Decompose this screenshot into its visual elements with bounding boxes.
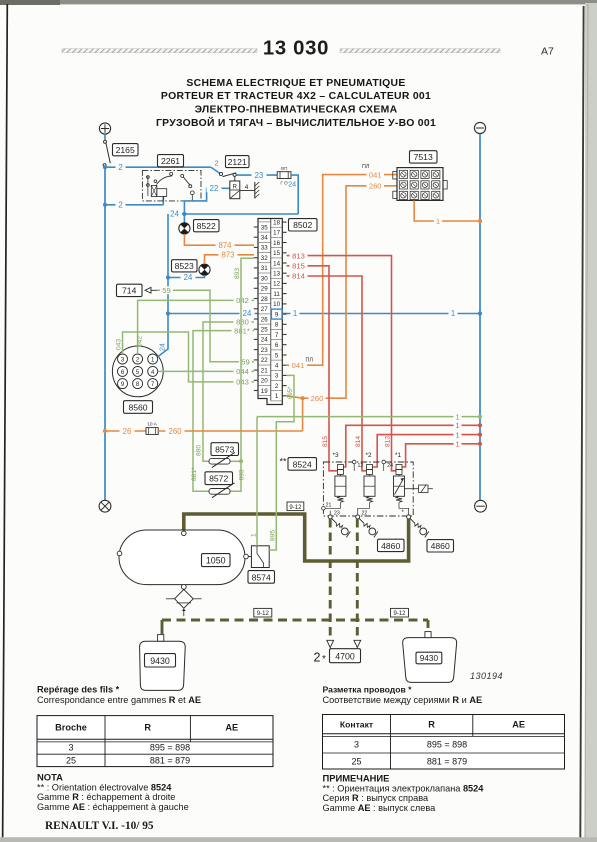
svg-text:24: 24 — [288, 180, 296, 189]
wire 24 bus horizontal — [167, 210, 298, 219]
temperature sensor 8573 — [209, 452, 235, 467]
solenoid valve block 8524 enclosure — [323, 462, 413, 516]
wire 043 — [115, 332, 254, 387]
svg-text:9: 9 — [275, 311, 279, 318]
svg-text:NOTA: NOTA — [37, 772, 63, 783]
svg-text:4860: 4860 — [381, 541, 400, 551]
page right scanned edge band — [580, 3, 597, 842]
svg-text:AE: AE — [225, 722, 238, 732]
solenoid valve 2 — [364, 465, 375, 503]
svg-text:22: 22 — [261, 357, 268, 364]
svg-text:SCHEMA ELECTRIQUE ET PNEUMATIQ: SCHEMA ELECTRIQUE ET PNEUMATIQUE — [186, 78, 405, 89]
title 13 030 — [263, 38, 329, 60]
svg-text:1: 1 — [455, 430, 459, 439]
svg-text:Gamme AE : выпуск слева: Gamme AE : выпуск слева — [323, 803, 437, 813]
svg-text:260: 260 — [311, 394, 324, 403]
wire 2 lower horizontal — [103, 197, 163, 210]
svg-text:** : Orientation électrovalve: ** : Orientation électrovalve 8524 — [37, 782, 172, 792]
svg-text:29: 29 — [261, 286, 268, 293]
svg-text:880: 880 — [196, 445, 203, 456]
svg-text:26: 26 — [261, 316, 268, 323]
connector 8560 body — [112, 346, 163, 397]
svg-text:19: 19 — [261, 388, 268, 395]
valve position labels *3 *2 *1 — [332, 452, 401, 459]
svg-text:24: 24 — [387, 463, 393, 469]
svg-text:31: 31 — [261, 265, 268, 272]
svg-text:9-12: 9-12 — [393, 611, 406, 617]
wire 23 — [236, 171, 277, 180]
svg-text:7: 7 — [275, 332, 279, 339]
svg-text:34: 34 — [261, 235, 268, 242]
wire 2 upper horizontal — [103, 159, 219, 172]
svg-text:10 A: 10 A — [147, 422, 157, 428]
wire 260 from pin 1 — [287, 394, 326, 403]
indicator lamp 8523 — [199, 264, 210, 275]
minus terminal (bottom right) — [475, 500, 487, 512]
page top scanned edge bar — [0, 0, 597, 5]
svg-text:** : Ориентация электроклапана: ** : Ориентация электроклапана 8524 — [323, 783, 485, 793]
svg-text:041: 041 — [369, 171, 382, 180]
block internal drain lines — [330, 503, 408, 515]
svg-text:2261: 2261 — [161, 156, 180, 166]
svg-text:16: 16 — [273, 240, 280, 247]
header line 4 RU — [156, 116, 436, 129]
svg-text:041: 041 — [292, 361, 305, 370]
svg-text:2165: 2165 — [116, 145, 135, 155]
pneumatic pipe to 9430 tanks (dashed horizontal) — [162, 620, 428, 634]
svg-text:8502: 8502 — [293, 220, 312, 230]
header line 3 RU — [195, 105, 398, 116]
wire 814 — [287, 272, 367, 471]
svg-text:5: 5 — [275, 352, 279, 359]
temperature sensor 8572 — [209, 483, 235, 498]
left note block FR — [37, 685, 201, 706]
svg-text:25: 25 — [66, 755, 76, 765]
svg-text:11: 11 — [273, 291, 280, 298]
label box 8572 — [205, 472, 233, 485]
svg-text:22: 22 — [362, 511, 368, 517]
svg-text:*3: *3 — [332, 452, 338, 459]
label box 2261 — [158, 155, 184, 167]
wire 1 from 8574 — [250, 417, 257, 546]
svg-text:10: 10 — [273, 301, 280, 308]
svg-text:3: 3 — [68, 743, 73, 753]
valve 3 return wire 1 — [343, 421, 482, 467]
svg-text:042: 042 — [236, 296, 249, 305]
svg-text:24: 24 — [170, 210, 179, 219]
label box 8524 — [280, 457, 317, 471]
svg-text:813: 813 — [292, 251, 305, 260]
header line 1 FR — [186, 78, 405, 89]
chassis plus terminal (bottom left) — [99, 500, 111, 512]
connector arrow 714 — [145, 287, 157, 293]
svg-text:Gamme R : échappement à droite: Gamme R : échappement à droite — [37, 792, 175, 802]
page bottom scanned edge band — [0, 837, 597, 842]
test coupling — [332, 519, 351, 538]
connector 7513 body — [393, 168, 447, 201]
svg-text:Correspondance entre gammes R: Correspondance entre gammes R et AE — [37, 695, 201, 705]
svg-text:Контакт: Контакт — [340, 720, 373, 730]
svg-text:7513: 7513 — [414, 152, 433, 162]
wire 044 — [158, 367, 254, 376]
svg-text:2: 2 — [275, 383, 279, 390]
svg-text:A7: A7 — [541, 46, 554, 58]
minus bus terminal (top right) — [474, 122, 485, 133]
svg-text:Г Θ: Г Θ — [280, 181, 288, 186]
right table — [323, 715, 565, 770]
resistive element with label 4 — [240, 182, 259, 199]
svg-text:1: 1 — [275, 393, 279, 400]
svg-text:1: 1 — [455, 412, 459, 421]
svg-text:895*: 895* — [288, 386, 294, 399]
right note block RU — [323, 685, 483, 706]
wire 260 riser — [301, 186, 398, 431]
svg-text:042: 042 — [136, 336, 143, 347]
valve 1 return wire 1 — [402, 440, 482, 467]
svg-text:4700: 4700 — [335, 652, 355, 662]
wire 24 from fuse — [288, 175, 298, 214]
relay 2261 enclosure — [142, 171, 201, 201]
svg-text:130194: 130194 — [470, 671, 503, 681]
svg-text:23: 23 — [261, 347, 268, 354]
block bottom ports 23 22 * — [328, 510, 410, 519]
wire 1 from 7513 to minus bus — [414, 200, 482, 225]
wire 24 vertical branch — [160, 214, 171, 351]
indicator lamp 8522 — [179, 223, 190, 234]
svg-text:21: 21 — [261, 367, 268, 374]
left table — [37, 716, 273, 767]
svg-text:8: 8 — [275, 322, 279, 329]
svg-text:2: 2 — [118, 201, 122, 210]
svg-text:881 = 879: 881 = 879 — [150, 755, 190, 765]
svg-text:ПРИМЕЧАНИЕ: ПРИМЕЧАНИЕ — [323, 773, 390, 784]
svg-text:8524: 8524 — [293, 459, 312, 469]
solenoid valve 3 — [335, 465, 346, 503]
connector 8502 pin 9 highlight — [271, 309, 282, 319]
svg-text:12: 12 — [273, 281, 280, 288]
svg-text:ЭЛЕКТРО-ПНЕВМАТИЧЕСКАЯ СХЕМА: ЭЛЕКТРО-ПНЕВМАТИЧЕСКАЯ СХЕМА — [195, 105, 398, 116]
switch 2121 blade — [211, 167, 236, 176]
svg-text:1: 1 — [293, 309, 297, 318]
pressure switch 8574 — [248, 546, 269, 568]
svg-text:**: ** — [280, 457, 288, 467]
svg-text:815: 815 — [292, 262, 305, 271]
connector 8502 body — [254, 219, 287, 405]
svg-text:8560: 8560 — [128, 402, 147, 412]
air tank 1050 — [117, 530, 248, 585]
test coupling — [410, 519, 429, 538]
label box 8574 — [248, 571, 275, 584]
svg-text:9430: 9430 — [420, 654, 439, 663]
svg-text:14: 14 — [273, 260, 280, 267]
label box 9-12 on dashed pipe left — [254, 608, 272, 617]
svg-text:17: 17 — [273, 230, 280, 237]
svg-text:*: * — [322, 654, 326, 665]
svg-text:*1: *1 — [395, 452, 401, 459]
right NOTE block — [323, 773, 485, 813]
label box 7513 — [410, 151, 438, 163]
svg-text:Repérage des fils *: Repérage des fils * — [37, 685, 120, 695]
label box 4860 right — [427, 540, 454, 552]
wire from bus to lamp 8522 — [183, 214, 185, 223]
svg-text:043: 043 — [236, 378, 249, 387]
svg-text:2121: 2121 — [228, 157, 247, 167]
svg-text:*: * — [402, 510, 405, 516]
wire 813 — [287, 251, 396, 471]
left NOTA block — [37, 772, 189, 812]
relay 2261 internals — [147, 172, 195, 201]
svg-text:8573: 8573 — [215, 444, 234, 454]
svg-text:6: 6 — [275, 342, 279, 349]
svg-text:18: 18 — [273, 219, 280, 226]
wire 041 from pin 4 — [287, 175, 397, 370]
svg-text:ГРУЗОВОЙ И ТЯГАЧ – ВЫЧИСЛИТЕЛЬ: ГРУЗОВОЙ И ТЯГАЧ – ВЫЧИСЛИТЕЛЬНОЕ У-ВО 0… — [156, 116, 436, 129]
page left scanned edge line — [3, 4, 8, 842]
svg-text:044: 044 — [236, 367, 249, 376]
svg-text:R: R — [233, 185, 238, 191]
svg-text:260: 260 — [168, 427, 182, 436]
svg-text:8522: 8522 — [197, 221, 216, 231]
svg-text:881*: 881* — [191, 467, 198, 481]
svg-text:043: 043 — [115, 339, 122, 350]
svg-text:881*: 881* — [234, 326, 250, 335]
svg-text:25: 25 — [351, 757, 361, 767]
wire stub from plus terminal — [104, 134, 106, 140]
test coupling — [359, 519, 378, 538]
pneumatic pipe 9-12 solid (tank 1050 to valve block) — [184, 514, 409, 561]
label box 9-12 on solid pipe — [287, 502, 304, 511]
svg-text:28: 28 — [261, 296, 268, 303]
svg-text:1: 1 — [455, 440, 459, 449]
svg-text:35: 35 — [261, 224, 268, 231]
svg-text:3: 3 — [275, 373, 279, 380]
svg-text:*2: *2 — [365, 452, 371, 459]
svg-text:59: 59 — [162, 286, 170, 295]
imprint RENAULT V.I. — [45, 820, 154, 832]
svg-text:Broche: Broche — [55, 722, 87, 732]
svg-text:59: 59 — [241, 357, 249, 366]
svg-text:815: 815 — [322, 436, 329, 447]
svg-text:874: 874 — [218, 241, 232, 250]
label box 2121 — [226, 156, 250, 168]
wire 24 / 1 long horizontal to minus bus — [168, 309, 482, 318]
svg-text:8574: 8574 — [252, 572, 271, 582]
fuse F — [277, 166, 291, 186]
label box 9430 right — [416, 652, 442, 664]
svg-text:26: 26 — [123, 427, 132, 436]
svg-text:895 = 898: 895 = 898 — [150, 743, 190, 753]
svg-text:24: 24 — [184, 273, 193, 282]
wire 260 label at 7513 — [367, 182, 385, 191]
label box 9430 left — [145, 654, 176, 667]
pneumatic pipe port 23 exhaust (dashed) — [327, 519, 334, 648]
svg-text:4860: 4860 — [431, 541, 450, 551]
wire 042 — [136, 296, 254, 354]
valve 2 return wire 1 — [373, 430, 483, 467]
svg-text:814: 814 — [292, 272, 305, 281]
svg-text:25: 25 — [261, 327, 268, 334]
wire 26 / 260 with fuse 10A — [103, 422, 303, 436]
label box 714 — [117, 284, 143, 296]
label box 1050 — [202, 554, 231, 567]
svg-text:873: 873 — [221, 251, 234, 260]
svg-text:881 = 879: 881 = 879 — [427, 757, 467, 767]
svg-text:ПЛ: ПЛ — [362, 164, 370, 170]
drain filter under tank — [166, 584, 202, 616]
label box 8502 — [289, 219, 318, 231]
svg-text:23: 23 — [255, 171, 264, 180]
header line 2 FR — [161, 91, 431, 102]
svg-text:RENAULT V.I. -10/ 95: RENAULT V.I. -10/ 95 — [45, 820, 154, 832]
wire 881 — [191, 326, 254, 491]
wire 895 from pin 2 to 8574 — [269, 375, 294, 550]
wire 815 — [287, 262, 338, 471]
switch 2165 blade — [103, 140, 110, 166]
svg-text:21: 21 — [326, 503, 332, 509]
svg-text:24: 24 — [160, 343, 167, 351]
label box 8523 — [172, 260, 198, 272]
svg-text:3: 3 — [354, 740, 359, 750]
label box 4860 left — [378, 539, 405, 551]
label box 8560 — [124, 401, 153, 414]
label box 9-12 on dashed pipe right — [391, 608, 409, 617]
minus bus vertical (wire 1) — [479, 134, 481, 500]
wire 874 — [184, 234, 254, 250]
svg-text:814: 814 — [355, 436, 362, 447]
wire 24 lamp 8523 return — [168, 273, 205, 282]
svg-text:13 030: 13 030 — [263, 38, 329, 60]
svg-text:9-12: 9-12 — [289, 505, 302, 511]
air tank 9430 right — [403, 632, 457, 683]
block port 21 — [322, 503, 341, 511]
wire 880 — [196, 318, 254, 462]
svg-text:895: 895 — [270, 530, 277, 541]
svg-text:30: 30 — [261, 275, 268, 282]
air tank 9430 left — [140, 635, 186, 691]
svg-text:PORTEUR ET TRACTEUR 4X2 – CALC: PORTEUR ET TRACTEUR 4X2 – CALCULATEUR 00… — [161, 91, 431, 102]
svg-text:ΘП: ΘП — [281, 166, 288, 171]
svg-text:1: 1 — [250, 533, 257, 537]
svg-text:4: 4 — [275, 363, 279, 370]
svg-text:2: 2 — [314, 651, 321, 665]
svg-text:2: 2 — [215, 159, 219, 168]
svg-text:813: 813 — [384, 436, 391, 447]
relay 2121 coil box R — [230, 176, 240, 198]
title hatched rule left — [62, 49, 257, 53]
svg-text:33: 33 — [261, 245, 268, 252]
wire 22 — [184, 184, 229, 201]
svg-text:1: 1 — [455, 421, 459, 430]
pressure switch return wire 1 (green) — [257, 412, 482, 421]
date note 130194 — [470, 671, 503, 681]
valve 1 pilot box — [405, 485, 433, 493]
svg-text:20: 20 — [261, 378, 268, 385]
svg-text:Соответствие между сериями R и: Соответствие между сериями R и AE — [323, 695, 483, 705]
svg-text:2: 2 — [118, 163, 122, 172]
svg-text:22: 22 — [210, 184, 219, 193]
label box 8573 — [211, 443, 239, 456]
svg-text:27: 27 — [261, 306, 268, 313]
svg-text:1: 1 — [436, 217, 440, 226]
svg-text:Серия R : выпуск справа: Серия R : выпуск справа — [323, 793, 429, 803]
block top ports 12 / 24 — [352, 460, 393, 471]
svg-text:24: 24 — [261, 337, 268, 344]
svg-text:15: 15 — [273, 250, 280, 257]
wire from relay 2261 to bus — [183, 201, 185, 214]
svg-text:AE: AE — [512, 720, 525, 730]
label box 2165 — [113, 144, 139, 156]
solenoid valve 1 — [394, 465, 405, 503]
svg-text:Разметка проводов *: Разметка проводов * — [323, 685, 413, 695]
svg-text:8523: 8523 — [175, 261, 194, 271]
wire 24 into 8560 pin 1 — [158, 349, 168, 357]
svg-text:4: 4 — [245, 184, 249, 191]
svg-text:9-12: 9-12 — [257, 611, 270, 617]
svg-text:1: 1 — [451, 309, 455, 318]
page code A7 — [541, 46, 554, 58]
exhaust silencers label 2x4700 — [314, 649, 361, 665]
svg-text:893: 893 — [239, 469, 246, 480]
svg-text:32: 32 — [261, 255, 268, 262]
label box 8522 — [194, 220, 220, 232]
svg-text:9430: 9430 — [150, 656, 170, 666]
title hatched rule right — [340, 49, 500, 53]
wire 041 label at 7513 — [362, 164, 384, 180]
wire 873 — [205, 251, 255, 265]
battery plus terminal (top left) — [99, 123, 110, 134]
svg-text:R: R — [144, 722, 151, 732]
svg-text:893: 893 — [234, 268, 241, 279]
svg-text:1050: 1050 — [206, 556, 226, 566]
svg-text:260: 260 — [369, 182, 382, 191]
svg-text:Gamme AE : échappement à gauch: Gamme AE : échappement à gauche — [37, 802, 189, 812]
svg-text:714: 714 — [122, 286, 137, 296]
svg-text:R: R — [428, 720, 435, 730]
svg-text:23: 23 — [334, 511, 340, 517]
svg-text:12: 12 — [358, 463, 364, 469]
pneumatic pipe port 22 exhaust (dashed) — [354, 519, 361, 648]
svg-text:13: 13 — [273, 271, 280, 278]
svg-text:895 = 898: 895 = 898 — [427, 740, 467, 750]
wire 893 — [230, 258, 254, 491]
wire 59 — [157, 286, 254, 366]
svg-text:8572: 8572 — [209, 474, 228, 484]
left supply bus (wire 2) vertical — [104, 167, 106, 500]
